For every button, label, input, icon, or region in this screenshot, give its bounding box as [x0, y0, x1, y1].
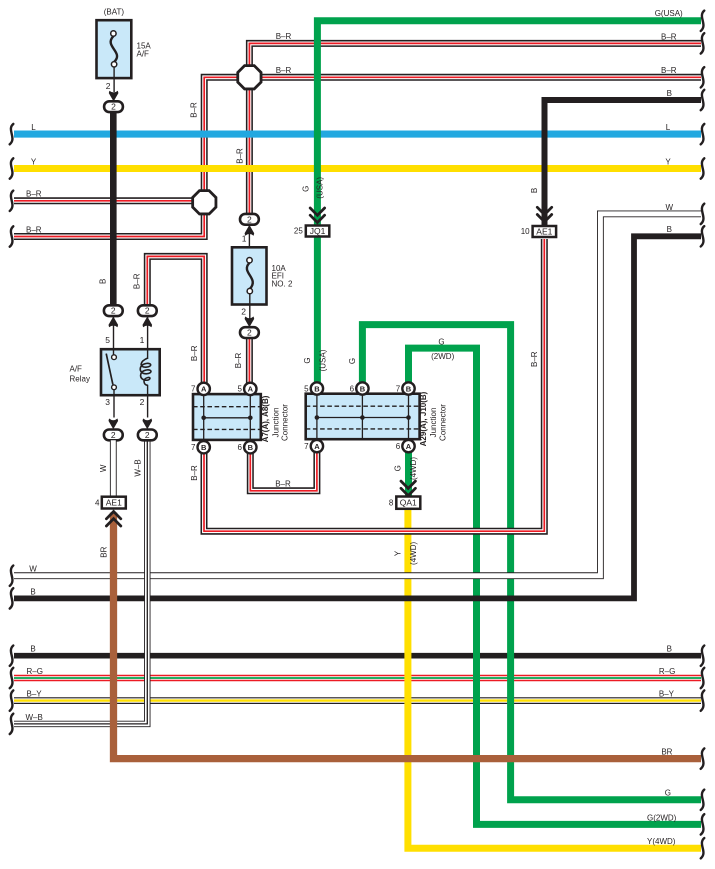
- fuse 15A A/F (BAT): [97, 20, 132, 92]
- label 4 at connector AE1 pin 4: [95, 499, 100, 508]
- continuation mark right for Y bus: [701, 158, 705, 178]
- svg-text:Y: Y: [394, 550, 403, 556]
- label B left: [30, 587, 35, 596]
- svg-text:W–B: W–B: [134, 459, 143, 476]
- label 25 at connector JQ1: [294, 227, 303, 236]
- connector QA1: [396, 497, 420, 509]
- svg-text:B–R: B–R: [190, 465, 199, 481]
- continuation mark right for G bus: [701, 790, 705, 810]
- wire W bus from left edge to right edge via corner (net W): [14, 214, 701, 576]
- pin 5A of junction connector A7: [244, 383, 256, 395]
- wire W from relay pin 3 oval down to connector AE1 pin 4 (net W): [110, 440, 117, 497]
- continuation mark left for B-R bus: [10, 226, 14, 246]
- svg-text:6: 6: [350, 384, 355, 393]
- label W-B at relay pin2 drop: [134, 459, 143, 476]
- continuation mark right for Y(4WD) bus: [701, 838, 705, 858]
- svg-text:B: B: [248, 443, 254, 452]
- label G at 4WD drop: [394, 465, 403, 471]
- label B bottom left: [30, 645, 35, 654]
- wire B-R bus from left edge turning up into junction J2 bottom: [14, 208, 204, 237]
- wire G(USA) from connector JQ1 down to pin 5B of junction connector A29: [314, 237, 321, 384]
- connector oval 2 at relay pin 1: [138, 305, 157, 316]
- wire R-G bottom bus (net R-G): [14, 675, 701, 681]
- label G at pin 6B riser: [348, 358, 357, 364]
- continuation mark right for B-R bus: [701, 33, 705, 53]
- svg-text:A29(A), J10(B): A29(A), J10(B): [419, 391, 428, 446]
- pin 7B of junction connector A7: [198, 441, 210, 453]
- continuation mark right for L bus: [701, 124, 705, 144]
- label (2WD) below 2WD wire: [431, 352, 454, 361]
- arrow into oval at fuse 15A output: [109, 91, 119, 102]
- svg-text:B: B: [30, 645, 35, 654]
- continuation mark left for B bus: [10, 646, 14, 666]
- continuation mark left for W-B bus: [10, 714, 14, 734]
- svg-text:Connector: Connector: [438, 404, 447, 441]
- wire G(USA) from right edge down to connector JQ1 (net G USA): [317, 21, 701, 226]
- label G above 2WD wire: [438, 337, 444, 346]
- label 6 at pin 6A: [396, 442, 401, 451]
- svg-text:B: B: [667, 645, 672, 654]
- pin 6B of junction connector A7: [244, 441, 256, 453]
- continuation mark right for R-G bus: [701, 668, 705, 688]
- pin 6B of junction connector A29: [356, 382, 368, 394]
- svg-text:(BAT): (BAT): [104, 7, 125, 16]
- svg-text:BR: BR: [661, 748, 672, 757]
- svg-text:B–R: B–R: [190, 345, 199, 361]
- svg-text:5: 5: [304, 384, 309, 393]
- label (BAT): [104, 7, 125, 16]
- connector AE1 pin 4: [102, 497, 126, 509]
- label (4WD) below QA1: [409, 542, 418, 565]
- label B right mid: [667, 225, 672, 234]
- continuation mark left for W bus: [10, 566, 14, 586]
- arrow chevrons into connector AE1 pin 4: [106, 512, 120, 527]
- label BR below AE1 pin4: [99, 546, 108, 557]
- svg-text:6: 6: [396, 442, 401, 451]
- svg-text:W–B: W–B: [26, 713, 43, 722]
- label G(2WD) right: [647, 813, 677, 822]
- label 10A EFI NO. 2: [272, 264, 293, 288]
- label W at relay pin3 drop: [99, 464, 108, 472]
- label (USA) above JQ1: [315, 177, 324, 199]
- svg-text:2: 2: [247, 328, 252, 338]
- svg-text:NO. 2: NO. 2: [272, 279, 293, 288]
- label A7(A), A8(B) Junction Connector: [261, 395, 289, 442]
- svg-text:Relay: Relay: [70, 374, 90, 383]
- junction connector A7(A) A8(B) box: [193, 394, 261, 440]
- arrow down into oval at relay pin 2: [143, 419, 153, 430]
- label (USA) below JQ1: [318, 349, 327, 371]
- label G right: [665, 789, 671, 798]
- label 10 at connector AE1: [521, 227, 530, 236]
- relay A/F Relay: [101, 316, 160, 418]
- continuation mark right for B-Y bus: [701, 690, 705, 710]
- wire B-R from relay pin 1 oval up and over to pin 7A of junction connector A7: [147, 256, 204, 383]
- arrow up into oval above fuse EFI: [245, 225, 255, 236]
- svg-text:B: B: [314, 384, 320, 393]
- svg-text:B–R: B–R: [190, 102, 199, 118]
- svg-text:B: B: [667, 89, 672, 98]
- svg-text:A: A: [248, 385, 254, 394]
- continuation mark left for B-Y bus: [10, 690, 14, 710]
- label 8 at connector QA1: [389, 498, 394, 507]
- label L left: [31, 123, 36, 132]
- label B at AE1 pin10 drop: [530, 188, 539, 193]
- label G below JQ1: [303, 357, 312, 363]
- continuation mark left for Y bus: [10, 158, 14, 178]
- svg-text:B–R: B–R: [236, 148, 245, 164]
- arrow chevrons into connector AE1 pin 10: [537, 207, 551, 222]
- label B-Y left: [27, 690, 43, 699]
- label A29(A), J10(B) Junction Connector: [419, 391, 447, 446]
- svg-text:A: A: [201, 385, 207, 394]
- label 7 at pin 7A: [304, 442, 309, 451]
- svg-text:B–R: B–R: [276, 66, 292, 75]
- svg-text:1: 1: [140, 335, 145, 345]
- svg-text:(USA): (USA): [318, 349, 327, 371]
- continuation mark right for B bus: [701, 90, 705, 110]
- connector oval 2 at relay pin 3: [104, 430, 123, 441]
- label (4WD) at 4WD drop: [409, 457, 418, 480]
- label pin 5 of relay: [105, 335, 110, 345]
- continuation mark left for L bus: [10, 124, 14, 144]
- continuation mark left for B-R bus: [10, 191, 14, 211]
- arrow up into oval at relay pin 5: [109, 317, 119, 328]
- wire B bottom bus (net B): [14, 653, 701, 659]
- label Y right: [665, 157, 671, 166]
- svg-text:B–R: B–R: [276, 32, 292, 41]
- label pin 1 of fuse EFI: [242, 234, 247, 244]
- svg-text:W: W: [666, 203, 674, 212]
- label B right bottom: [667, 645, 672, 654]
- label B-R relay pin1 riser: [133, 273, 142, 289]
- svg-text:B: B: [201, 443, 207, 452]
- svg-text:2: 2: [140, 397, 145, 407]
- svg-text:7: 7: [191, 443, 196, 452]
- label B-R above J1 right wire: [276, 66, 292, 75]
- label pin 3 of relay: [105, 397, 110, 407]
- pin 7A of junction connector A7: [198, 383, 210, 395]
- continuation mark right for W bus: [701, 204, 705, 224]
- connector oval 2 above fuse EFI: [240, 214, 259, 225]
- svg-text:W: W: [29, 565, 37, 574]
- wire B-Y bottom bus (net B-Y): [14, 697, 701, 704]
- svg-text:Junction: Junction: [271, 408, 280, 438]
- junction node J2 (octagon): [193, 191, 216, 214]
- label 7 at pin 7A: [191, 385, 196, 394]
- svg-text:A7(A), A8(B): A7(A), A8(B): [261, 395, 270, 442]
- svg-text:2: 2: [241, 307, 246, 317]
- svg-text:B–R: B–R: [234, 352, 243, 368]
- svg-text:G: G: [394, 465, 403, 471]
- connector AE1 pin 10: [533, 226, 557, 237]
- wire G from pin 6B of junction connector A29 to right edge (net G): [362, 325, 701, 800]
- label R-G left: [27, 667, 43, 676]
- label pin 2 of fuse 15A: [106, 81, 111, 91]
- label Y(4WD) right: [647, 837, 676, 846]
- svg-text:G: G: [303, 357, 312, 363]
- svg-text:2: 2: [111, 430, 116, 440]
- svg-text:(USA): (USA): [315, 177, 324, 199]
- label B-R at J2 drop: [190, 102, 199, 118]
- svg-text:B: B: [667, 225, 672, 234]
- label B-R at J1 drop: [236, 148, 245, 164]
- wire B-R bus from right edge through junction J1 down to junction J2 (net B-R): [204, 77, 701, 196]
- svg-text:2: 2: [145, 306, 150, 316]
- svg-text:JQ1: JQ1: [310, 226, 326, 236]
- connector oval 2 below fuse 15A: [104, 101, 123, 112]
- label B-R above J1 top wire: [276, 32, 292, 41]
- wire G(4WD) from pin 6A of junction connector A29 down to connector QA1: [405, 452, 412, 497]
- svg-text:G: G: [438, 337, 444, 346]
- label B-R left lower: [26, 225, 42, 234]
- junction connector A29(A) J10(B) box: [306, 394, 420, 440]
- svg-text:A: A: [406, 442, 412, 451]
- svg-text:B–R: B–R: [26, 225, 42, 234]
- svg-text:Y: Y: [665, 157, 671, 166]
- svg-text:5: 5: [105, 335, 110, 345]
- svg-text:7: 7: [191, 385, 196, 394]
- svg-text:B–R: B–R: [133, 273, 142, 289]
- label B-R above pin 5A: [234, 352, 243, 368]
- svg-text:B–R: B–R: [26, 190, 42, 199]
- label B-R left upper: [26, 190, 42, 199]
- label B-R at pin 7B drop: [190, 465, 199, 481]
- svg-text:2: 2: [247, 214, 252, 224]
- connector JQ1: [306, 226, 330, 237]
- svg-text:W: W: [99, 464, 108, 472]
- continuation mark left for B bus: [10, 588, 14, 608]
- label Y left: [31, 157, 37, 166]
- pin 7A of junction connector A29: [311, 440, 323, 452]
- connector oval 2 at relay pin 5: [104, 305, 123, 316]
- svg-text:G(2WD): G(2WD): [647, 813, 677, 822]
- svg-text:B: B: [99, 279, 108, 284]
- continuation mark right for B bus: [701, 226, 705, 246]
- svg-text:4: 4: [95, 499, 100, 508]
- wire BR from connector AE1 pin 4 down and right to right edge (net BR): [114, 513, 702, 759]
- wire pin line from junction J1 branch into fuse EFI: [248, 226, 250, 247]
- wire B-R loop from pin 7B of junction connector A7 to connector AE1 pin 10: [204, 239, 544, 531]
- svg-text:AE1: AE1: [536, 227, 552, 237]
- svg-text:L: L: [666, 123, 671, 132]
- svg-text:B–Y: B–Y: [659, 690, 675, 699]
- svg-text:B: B: [406, 384, 412, 393]
- svg-text:7: 7: [396, 384, 401, 393]
- label A/F Relay: [70, 364, 90, 383]
- svg-text:G(USA): G(USA): [655, 9, 683, 18]
- junction node J1 (octagon): [238, 66, 261, 89]
- svg-text:3: 3: [105, 397, 110, 407]
- wire L blue bus left-to-right (net L): [14, 131, 701, 138]
- svg-text:B: B: [30, 587, 35, 596]
- label B-R above loop bottom wire: [275, 480, 291, 489]
- wire B-R bus from left edge to junction J2 (net B-R): [14, 197, 196, 204]
- arrow chevrons into connector JQ1: [310, 208, 324, 223]
- label 15A A/F: [137, 41, 152, 58]
- label L right: [666, 123, 671, 132]
- svg-text:AE1: AE1: [106, 498, 122, 508]
- label B-Y right: [659, 690, 675, 699]
- continuation mark right for B-R bus: [701, 67, 705, 87]
- label 5 at pin 5A: [238, 385, 243, 394]
- svg-text:B–R: B–R: [661, 32, 677, 41]
- continuation mark left for R-G bus: [10, 668, 14, 688]
- label W left: [29, 565, 37, 574]
- connector oval 2 at relay pin 2: [138, 430, 157, 441]
- svg-text:6: 6: [238, 443, 243, 452]
- continuation mark right for G(2WD) bus: [701, 814, 705, 834]
- label B-R right lower: [661, 66, 677, 75]
- label Y below QA1: [394, 550, 403, 556]
- label B right top: [667, 89, 672, 98]
- label 5 at pin 5B: [304, 384, 309, 393]
- svg-text:B: B: [530, 188, 539, 193]
- continuation mark right for G(USA) bus: [701, 11, 705, 31]
- wire B from fuse (BAT) oval down to A/F relay pin 5 oval (net B): [110, 112, 117, 306]
- label G above JQ1: [301, 186, 310, 192]
- svg-text:Y(4WD): Y(4WD): [647, 837, 676, 846]
- label pin 2 of fuse EFI: [241, 307, 246, 317]
- label B-R below AE1 pin10: [530, 351, 539, 367]
- label B fuse drop: [99, 279, 108, 284]
- wire Y yellow bus left-to-right (net Y): [14, 165, 701, 172]
- label 6 at pin 6B: [238, 443, 243, 452]
- svg-text:8: 8: [389, 498, 394, 507]
- connector oval 2 below fuse EFI: [240, 327, 259, 338]
- wire W-B from A/F relay pin 2 oval down and left to left edge (net W-B): [14, 440, 147, 724]
- arrow up into oval at relay pin 1: [143, 317, 153, 328]
- arrow chevrons into connector QA1: [401, 481, 415, 496]
- wire B from right edge turning down to connector AE1 pin 10 (net B): [545, 100, 702, 226]
- wire B-R junction J1 bottom down to connector oval above fuse EFI: [246, 83, 253, 214]
- pin 7B of junction connector A29: [402, 382, 414, 394]
- svg-text:25: 25: [294, 227, 303, 236]
- svg-text:Y: Y: [31, 157, 37, 166]
- svg-text:QA1: QA1: [400, 498, 417, 508]
- label 6 at pin 6B: [350, 384, 355, 393]
- svg-text:(2WD): (2WD): [431, 352, 454, 361]
- svg-text:A/F: A/F: [137, 49, 150, 58]
- svg-text:2: 2: [145, 430, 150, 440]
- svg-text:R–G: R–G: [27, 667, 43, 676]
- svg-text:(4WD): (4WD): [409, 542, 418, 565]
- pin 5B of junction connector A29: [311, 382, 323, 394]
- svg-text:2: 2: [111, 102, 116, 112]
- svg-text:(4WD): (4WD): [409, 457, 418, 480]
- continuation mark right for BR bus: [701, 748, 705, 768]
- wire Y(4WD) from connector QA1 down to right edge (net Y 4WD): [408, 509, 701, 848]
- continuation mark right for B bus: [701, 646, 705, 666]
- svg-text:10: 10: [521, 227, 530, 236]
- svg-text:A: A: [314, 442, 320, 451]
- label W-B left: [26, 713, 43, 722]
- svg-text:7: 7: [304, 442, 309, 451]
- wire G(2WD) from pin 7B of junction connector A29 to right edge (net G 2WD): [409, 348, 702, 824]
- svg-text:5: 5: [238, 385, 243, 394]
- svg-text:Connector: Connector: [281, 404, 290, 441]
- label W right: [666, 203, 674, 212]
- svg-text:B–R: B–R: [530, 351, 539, 367]
- svg-text:2: 2: [106, 81, 111, 91]
- svg-text:G: G: [665, 789, 671, 798]
- svg-text:A/F: A/F: [70, 364, 83, 373]
- svg-text:B–R: B–R: [661, 66, 677, 75]
- svg-text:2: 2: [111, 306, 116, 316]
- svg-text:R–G: R–G: [659, 667, 675, 676]
- label R-G right: [659, 667, 675, 676]
- svg-text:Junction: Junction: [429, 408, 438, 438]
- wire B-R from fuse EFI oval down to pin 5A of junction connector A7: [246, 338, 253, 384]
- wire B bus from left edge to right edge via corner (net B): [14, 236, 701, 598]
- svg-text:1: 1: [242, 234, 247, 244]
- wire B-R from pin 6B of junction connector A7 to pin 7A of junction connector A29: [250, 452, 317, 491]
- arrow down into oval at relay pin 3: [109, 419, 119, 430]
- pin 6A of junction connector A29: [402, 440, 414, 452]
- label pin 1 of relay: [140, 335, 145, 345]
- svg-text:B–Y: B–Y: [27, 690, 43, 699]
- svg-text:G: G: [348, 358, 357, 364]
- label 7 at pin 7B: [191, 443, 196, 452]
- label B-R above pin 7A: [190, 345, 199, 361]
- svg-text:L: L: [31, 123, 36, 132]
- svg-text:B: B: [360, 384, 366, 393]
- fuse 10A EFI NO.2: [232, 247, 267, 319]
- svg-text:B–R: B–R: [275, 480, 291, 489]
- svg-text:BR: BR: [99, 546, 108, 557]
- label B-R right upper: [661, 32, 677, 41]
- label BR right: [661, 748, 672, 757]
- wire B-R from right edge turning down into junction J1 top: [249, 43, 701, 71]
- arrow into oval below fuse EFI: [245, 317, 255, 328]
- svg-text:G: G: [301, 186, 310, 192]
- label G(USA) right: [655, 9, 683, 18]
- label pin 2 of relay: [140, 397, 145, 407]
- label 7 at pin 7B: [396, 384, 401, 393]
